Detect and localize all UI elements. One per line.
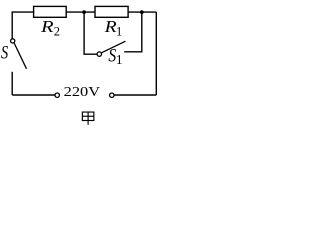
switch S lever <box>14 43 26 69</box>
svg-text:1: 1 <box>116 52 123 67</box>
junction node B dot <box>140 10 144 14</box>
junction node A dot <box>82 10 86 14</box>
wire bottom-left to terminal <box>12 94 55 96</box>
wire S1 to junction B <box>124 12 142 52</box>
terminal circle left 220V <box>55 93 59 97</box>
wire top-left segment <box>12 12 33 38</box>
wire R2 to R1 <box>66 11 95 13</box>
resistor R2 <box>34 6 67 17</box>
wire R1 to top-right corner <box>128 11 156 13</box>
terminal circle right 220V <box>110 93 114 97</box>
switch S1 contact circle <box>97 52 101 56</box>
svg-text:1: 1 <box>116 24 122 38</box>
wire right side down <box>155 12 157 95</box>
svg-text:2: 2 <box>54 24 60 38</box>
svg-text:S: S <box>1 44 8 64</box>
wire junction A down to S1 branch <box>84 12 97 54</box>
label jia (Chinese character) <box>82 112 94 125</box>
switch S contact circle <box>11 39 15 43</box>
svg-text:R: R <box>103 17 116 36</box>
svg-text:R: R <box>40 17 54 36</box>
resistor R1 <box>95 6 128 17</box>
svg-text:220V: 220V <box>64 85 100 100</box>
wire bottom-right to terminal <box>114 94 156 96</box>
wire left lower vertical <box>11 72 13 95</box>
switch S1 lever <box>101 41 125 53</box>
